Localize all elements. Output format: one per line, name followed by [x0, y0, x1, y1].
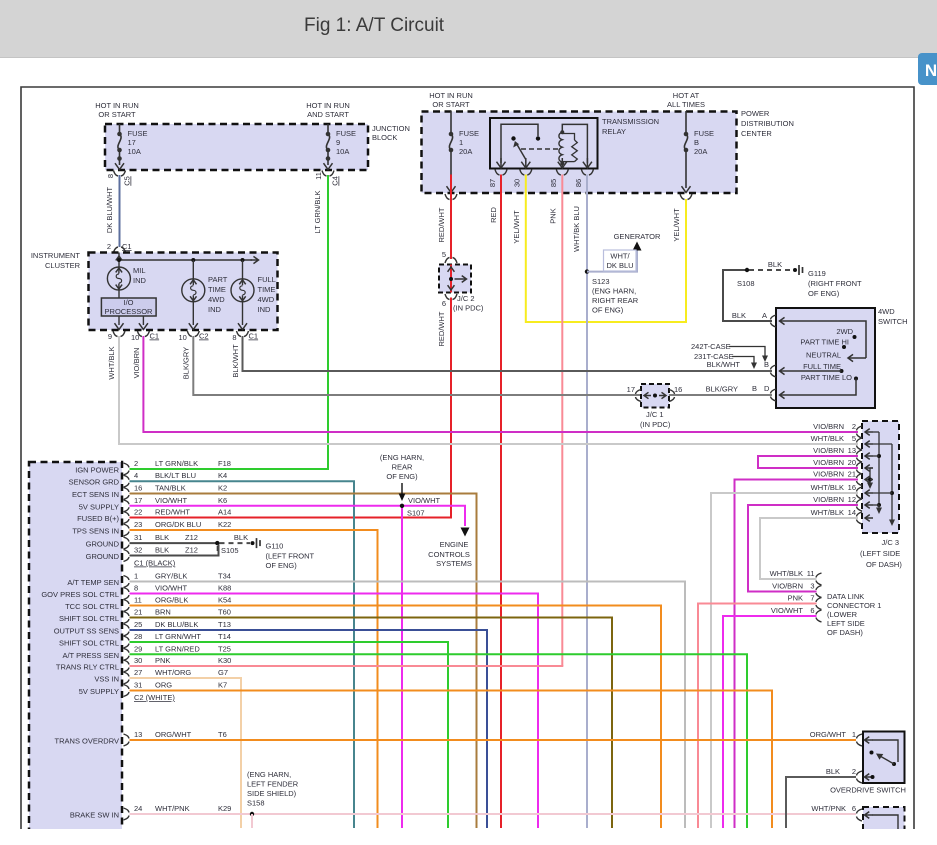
svg-text:FUSE: FUSE [128, 129, 148, 138]
svg-text:87: 87 [488, 179, 497, 187]
svg-text:BLK/LT BLU: BLK/LT BLU [155, 471, 196, 480]
wire ORG/WHT row13 to overdrive switch [130, 739, 857, 741]
svg-text:G119: G119 [808, 269, 826, 278]
svg-text:10A: 10A [128, 147, 141, 156]
svg-text:GOV PRES SOL CTRL: GOV PRES SOL CTRL [41, 590, 119, 599]
junction connector J/C3 box [862, 421, 899, 533]
wire BRN row21 down [130, 618, 613, 829]
svg-text:VIO/BRN: VIO/BRN [772, 582, 803, 591]
relay armature dashed link [521, 148, 561, 150]
PCM connector box [29, 462, 122, 837]
4WD switch box [776, 308, 875, 408]
svg-text:27: 27 [134, 668, 142, 677]
relay pin 85 stub [561, 162, 563, 164]
svg-text:K4: K4 [218, 471, 227, 480]
svg-text:5: 5 [442, 250, 446, 259]
svg-text:PNK: PNK [155, 656, 170, 665]
svg-text:TIME: TIME [208, 285, 226, 294]
svg-text:31: 31 [134, 533, 142, 542]
svg-text:8: 8 [106, 174, 115, 178]
wire WHT/PNK row24 to brake switch box [130, 813, 857, 815]
svg-text:S158: S158 [247, 799, 265, 808]
J/C3 pin 20 bracket [857, 462, 863, 474]
svg-text:BLK/GRY: BLK/GRY [706, 385, 738, 394]
svg-text:PART: PART [208, 275, 228, 284]
svg-text:13: 13 [848, 446, 856, 455]
svg-text:(LEFT SIDE: (LEFT SIDE [860, 549, 900, 558]
svg-text:(IN PDC): (IN PDC) [453, 304, 484, 313]
svg-text:4: 4 [134, 471, 138, 480]
wire WHT/BLK cluster to J/C3 pin5 [119, 336, 858, 444]
svg-text:G110: G110 [266, 542, 284, 551]
relay coil supply 86 path [562, 124, 587, 163]
svg-text:PNK: PNK [788, 594, 803, 603]
splice S158 [250, 812, 254, 816]
svg-text:PART TIME LO: PART TIME LO [801, 373, 852, 382]
svg-text:WHT/ORG: WHT/ORG [155, 668, 191, 677]
svg-text:F18: F18 [218, 459, 231, 468]
svg-text:MIL: MIL [133, 266, 146, 275]
svg-text:S123: S123 [592, 277, 610, 286]
svg-text:G7: G7 [218, 668, 228, 677]
svg-text:TRANS OVERDRV: TRANS OVERDRV [55, 737, 119, 746]
fuse F17 feed wire [119, 124, 121, 134]
wire BLK/LT BLU row4 down [130, 481, 355, 828]
svg-text:ORG/BLK: ORG/BLK [155, 596, 188, 605]
svg-text:29: 29 [134, 644, 142, 653]
data link connector pins [816, 573, 822, 585]
J/C3 pin 16 bracket [857, 487, 863, 499]
svg-text:RIGHT REAR: RIGHT REAR [592, 296, 639, 305]
svg-text:9: 9 [108, 332, 112, 341]
power distribution center box [422, 112, 737, 194]
wire VIO/BRN J/C3 21 down [735, 480, 859, 829]
svg-text:AND START: AND START [307, 110, 349, 119]
svg-text:VIO/WHT: VIO/WHT [155, 496, 187, 505]
wire LT GRN/BLK fuse9 to PCM IGN POWER [130, 175, 329, 469]
fuse 1 20A [449, 134, 452, 150]
svg-text:17: 17 [627, 385, 635, 394]
svg-text:FUSE: FUSE [459, 129, 479, 138]
svg-text:16: 16 [134, 484, 142, 493]
wire RED/WHT fuse1 down to J/C2 [450, 175, 452, 260]
svg-text:JUNCTION: JUNCTION [372, 124, 410, 133]
svg-text:HOT IN RUN: HOT IN RUN [95, 101, 139, 110]
svg-text:K6: K6 [218, 496, 227, 505]
wire YEL/WHT relay30 loop to fuseB [526, 175, 686, 323]
relay coil [559, 132, 562, 162]
svg-text:FULL TIME: FULL TIME [803, 362, 841, 371]
svg-text:21: 21 [134, 608, 142, 617]
svg-text:20A: 20A [459, 147, 472, 156]
svg-text:20: 20 [848, 458, 856, 467]
svg-text:J/C 3: J/C 3 [881, 538, 899, 547]
svg-text:242T-CASE: 242T-CASE [691, 342, 731, 351]
svg-text:ORG/DK BLU: ORG/DK BLU [155, 520, 201, 529]
fuse 17 10A [118, 134, 121, 150]
wire VIO/BRN J/C3 12 to DLC 3 [748, 505, 858, 592]
svg-text:DATA LINK: DATA LINK [827, 592, 864, 601]
junction connector J/C1 box [641, 384, 669, 408]
J/C3 pin 21 bracket [857, 474, 863, 486]
svg-text:11: 11 [314, 172, 323, 180]
svg-text:31: 31 [134, 681, 142, 690]
cluster exit stubs [118, 316, 120, 325]
svg-text:C1: C1 [122, 242, 132, 251]
svg-text:3: 3 [810, 582, 814, 591]
svg-text:6: 6 [810, 606, 814, 615]
svg-text:8: 8 [134, 584, 138, 593]
svg-text:SIDE SHIELD): SIDE SHIELD) [247, 789, 297, 798]
svg-text:5V SUPPLY: 5V SUPPLY [79, 687, 119, 696]
svg-text:IGN POWER: IGN POWER [75, 466, 119, 475]
wire ORG/BLK row11 down [130, 606, 662, 829]
svg-text:DISTRIBUTION: DISTRIBUTION [741, 119, 794, 128]
lamp PART TIME 4WD IND [192, 260, 194, 279]
svg-text:LT GRN/RED: LT GRN/RED [155, 644, 200, 653]
svg-text:CONTROLS: CONTROLS [428, 550, 470, 559]
cluster feed bus [118, 253, 120, 268]
splice S105 [215, 541, 219, 545]
svg-text:Z12: Z12 [185, 546, 198, 555]
svg-text:VIO/BRN: VIO/BRN [813, 458, 844, 467]
svg-text:RED/WHT: RED/WHT [437, 311, 446, 346]
svg-text:BLK: BLK [155, 546, 169, 555]
svg-text:ALL TIMES: ALL TIMES [667, 100, 705, 109]
wire ORG row31 down [130, 691, 773, 829]
ground G119 [749, 269, 793, 271]
svg-text:CONNECTOR 1: CONNECTOR 1 [827, 601, 881, 610]
wire VIO/BRN cluster to J/C3 pin2 [143, 336, 858, 432]
svg-text:BLOCK: BLOCK [372, 133, 397, 142]
svg-text:30: 30 [513, 179, 522, 187]
fuse F1 feed wire [450, 111, 452, 134]
svg-text:11: 11 [807, 569, 815, 578]
svg-text:VIO/BRN: VIO/BRN [132, 348, 141, 379]
svg-text:BRN: BRN [155, 608, 171, 617]
svg-text:WHT/: WHT/ [610, 252, 630, 261]
svg-text:10: 10 [179, 333, 187, 342]
svg-text:T60: T60 [218, 608, 231, 617]
svg-text:TAN/BLK: TAN/BLK [155, 484, 186, 493]
svg-text:FUSE: FUSE [694, 129, 714, 138]
svg-text:S107: S107 [407, 509, 425, 518]
svg-text:POWER: POWER [741, 109, 770, 118]
svg-text:ORG: ORG [155, 681, 172, 690]
svg-text:OF DASH): OF DASH) [866, 560, 902, 569]
svg-text:DK BLU/WHT: DK BLU/WHT [105, 186, 114, 233]
svg-text:C2: C2 [199, 332, 209, 341]
svg-text:6: 6 [852, 804, 856, 813]
svg-text:J/C 2: J/C 2 [457, 294, 475, 303]
svg-text:GROUND: GROUND [86, 540, 120, 549]
overdrive blade [880, 756, 894, 764]
svg-text:BLK/WHT: BLK/WHT [707, 360, 741, 369]
svg-text:HOT IN RUN: HOT IN RUN [306, 101, 350, 110]
junction block box [105, 124, 368, 170]
svg-text:ENGINE: ENGINE [440, 540, 469, 549]
4WD common path to NEUTRAL [788, 321, 867, 358]
svg-text:4WD: 4WD [258, 295, 275, 304]
wire DK BLU/WHT fuse17 to cluster [119, 175, 121, 247]
4WD pin D path [771, 389, 777, 401]
svg-text:5V SUPPLY: 5V SUPPLY [79, 502, 119, 511]
svg-text:T34: T34 [218, 572, 231, 581]
svg-text:OF DASH): OF DASH) [827, 628, 863, 637]
svg-text:SYSTEMS: SYSTEMS [436, 559, 472, 568]
svg-text:K30: K30 [218, 656, 231, 665]
svg-text:D: D [764, 384, 770, 393]
svg-text:OF ENG): OF ENG) [592, 306, 624, 315]
svg-text:14: 14 [848, 508, 856, 517]
fuse 9 10A [326, 134, 329, 150]
svg-text:RED/WHT: RED/WHT [437, 207, 446, 242]
svg-text:INSTRUMENT: INSTRUMENT [31, 251, 81, 260]
svg-text:13: 13 [134, 730, 142, 739]
generator arrow [633, 242, 642, 251]
J/C3 internal bus 5-16 [873, 443, 892, 445]
svg-text:16: 16 [848, 483, 856, 492]
svg-text:12: 12 [848, 495, 856, 504]
wire BLK/WHT cluster to 4WD switch B [243, 336, 773, 371]
svg-text:TCC SOL CTRL: TCC SOL CTRL [65, 602, 119, 611]
J/C3 pin 14 bracket [857, 512, 863, 524]
svg-text:OF ENG): OF ENG) [808, 289, 840, 298]
svg-text:4WD: 4WD [878, 307, 895, 316]
J/C3 pin 5 bracket [857, 438, 863, 450]
wire LT GRN/WHT row28 down [130, 642, 449, 828]
svg-text:30: 30 [134, 656, 142, 665]
J/C3 internal bus 20-21-16 [870, 467, 873, 469]
svg-text:LEFT SIDE: LEFT SIDE [827, 619, 865, 628]
svg-text:ORG/WHT: ORG/WHT [155, 730, 192, 739]
svg-text:K7: K7 [218, 681, 227, 690]
lamp MIL IND [107, 267, 130, 290]
svg-text:NEUTRAL: NEUTRAL [806, 351, 841, 360]
svg-text:WHT/PNK: WHT/PNK [811, 804, 846, 813]
svg-text:RED: RED [489, 207, 498, 223]
svg-text:I/O: I/O [123, 298, 133, 307]
wire WHT/ORG row27 down [130, 678, 242, 828]
svg-text:8: 8 [232, 333, 236, 342]
svg-text:RED/WHT: RED/WHT [155, 508, 190, 517]
svg-text:T6: T6 [218, 730, 227, 739]
svg-text:17: 17 [128, 138, 136, 147]
svg-text:BLK: BLK [155, 533, 169, 542]
overdrive pin 1 [857, 734, 863, 746]
wire WHT/BLK J/C3 14 to DLC 11 [760, 518, 858, 579]
svg-text:A/T TEMP SEN: A/T TEMP SEN [67, 578, 119, 587]
svg-text:T25: T25 [218, 644, 231, 653]
svg-text:TPS SENS IN: TPS SENS IN [72, 527, 119, 536]
svg-text:VIO/BRN: VIO/BRN [813, 422, 844, 431]
svg-text:2: 2 [852, 422, 856, 431]
svg-text:(ENG HARN,: (ENG HARN, [592, 287, 636, 296]
fuse F9 feed wire [327, 124, 329, 134]
svg-text:C5: C5 [123, 176, 132, 186]
relay coil resistor zigzag [572, 140, 578, 162]
svg-text:BLK: BLK [234, 533, 248, 542]
svg-text:10: 10 [131, 333, 139, 342]
svg-text:T13: T13 [218, 620, 231, 629]
wire DK BLU/BLK row25 down [130, 630, 488, 828]
overdrive internal path [872, 740, 898, 762]
svg-text:GRY/BLK: GRY/BLK [155, 572, 187, 581]
svg-text:Fig 1: A/T Circuit: Fig 1: A/T Circuit [304, 15, 445, 36]
svg-text:C1: C1 [249, 332, 259, 341]
svg-text:K29: K29 [218, 804, 231, 813]
J/C3 pin 2 bracket [857, 426, 863, 438]
svg-text:10A: 10A [336, 147, 349, 156]
svg-text:OR START: OR START [432, 100, 470, 109]
wire BLK/GRY cluster to 4WD switch D via J/C1 [193, 336, 772, 395]
svg-text:LT GRN/WHT: LT GRN/WHT [155, 632, 201, 641]
svg-text:LEFT FENDER: LEFT FENDER [247, 780, 299, 789]
svg-text:WHT/BK BLU: WHT/BK BLU [572, 206, 581, 252]
svg-text:FUSE: FUSE [336, 129, 356, 138]
svg-text:17: 17 [134, 496, 142, 505]
svg-text:SWITCH: SWITCH [878, 317, 908, 326]
fuse B 20A [684, 134, 687, 150]
svg-text:20A: 20A [694, 147, 707, 156]
svg-text:C1: C1 [150, 332, 160, 341]
engine controls systems arrow [461, 528, 470, 537]
svg-text:2WD: 2WD [836, 327, 853, 336]
svg-text:25: 25 [134, 620, 142, 629]
svg-text:22: 22 [134, 508, 142, 517]
svg-text:C1 (BLACK): C1 (BLACK) [134, 559, 176, 568]
svg-text:S105: S105 [221, 546, 239, 555]
svg-text:BLK: BLK [826, 767, 840, 776]
I/O processor box [118, 290, 120, 298]
svg-text:C4: C4 [331, 176, 340, 186]
wire VIO/BRN jumper J/C3 13-20 [758, 456, 858, 468]
svg-text:PART TIME HI: PART TIME HI [800, 338, 849, 347]
wire BLK 4WD switch A to S108 [723, 270, 772, 321]
svg-text:16: 16 [674, 385, 682, 394]
svg-text:OF ENG): OF ENG) [266, 561, 298, 570]
junction connector J/C2 box [445, 258, 457, 264]
svg-text:A: A [762, 311, 767, 320]
wire PNK row30 to relay85 [130, 665, 564, 667]
wire VIO/WHT DLC 6 down [723, 616, 817, 828]
svg-text:1: 1 [459, 138, 463, 147]
wire PNK DLC 7 down [698, 604, 817, 829]
J/C2 internal arrows [450, 265, 452, 293]
svg-text:VIO/WHT: VIO/WHT [408, 496, 440, 505]
svg-text:ORG/WHT: ORG/WHT [810, 730, 847, 739]
svg-text:1: 1 [852, 730, 856, 739]
wire VIO/WHT row8 down [130, 594, 539, 829]
svg-text:2: 2 [134, 459, 138, 468]
svg-text:BLK/GRY: BLK/GRY [182, 347, 191, 379]
overdrive switch box [863, 732, 905, 784]
svg-text:K2: K2 [218, 484, 227, 493]
svg-text:VSS IN: VSS IN [94, 675, 119, 684]
svg-text:7: 7 [810, 594, 814, 603]
svg-text:K22: K22 [218, 520, 231, 529]
svg-text:ECT SENS IN: ECT SENS IN [72, 490, 119, 499]
svg-text:Z12: Z12 [185, 533, 198, 542]
svg-text:T14: T14 [218, 632, 231, 641]
page header bar [0, 0, 937, 58]
fuse B feed wire [685, 111, 687, 134]
svg-text:WHT/BLK: WHT/BLK [811, 483, 844, 492]
svg-text:A/T PRESS SEN: A/T PRESS SEN [62, 651, 119, 660]
brake switch box (dashed, cut off) [863, 807, 905, 837]
svg-text:TRANS RLY CTRL: TRANS RLY CTRL [56, 663, 119, 672]
svg-text:9: 9 [336, 138, 340, 147]
svg-text:N: N [925, 61, 937, 80]
svg-text:YEL/WHT: YEL/WHT [512, 210, 521, 244]
svg-text:PROCESSOR: PROCESSOR [105, 307, 154, 316]
wire ORG/DK BLU row23 down [130, 530, 378, 828]
svg-text:SHIFT SOL CTRL: SHIFT SOL CTRL [59, 614, 119, 623]
svg-text:LT GRN/BLK: LT GRN/BLK [313, 190, 322, 233]
svg-text:GENERATOR: GENERATOR [614, 232, 661, 241]
svg-text:23: 23 [134, 520, 142, 529]
splice S123 [585, 269, 589, 273]
svg-text:DK BLU/BLK: DK BLU/BLK [155, 620, 198, 629]
svg-text:VIO/WHT: VIO/WHT [155, 584, 187, 593]
svg-text:K54: K54 [218, 596, 231, 605]
svg-text:TIME: TIME [258, 285, 276, 294]
svg-text:IND: IND [133, 276, 147, 285]
svg-text:K88: K88 [218, 584, 231, 593]
wire WHT/BLK J/C3 16 down [711, 493, 858, 828]
svg-text:LT GRN/BLK: LT GRN/BLK [155, 459, 198, 468]
svg-text:WHT/BLK: WHT/BLK [107, 346, 116, 379]
splice S108 [745, 268, 749, 272]
relay contact 87 path [501, 124, 538, 163]
blue N tab top-right [918, 53, 937, 85]
svg-text:OF ENG): OF ENG) [386, 472, 418, 481]
svg-text:VIO/BRN: VIO/BRN [813, 470, 844, 479]
svg-text:BLK/WHT: BLK/WHT [231, 344, 240, 378]
4WD pin B [771, 365, 777, 377]
svg-text:BLK: BLK [768, 260, 782, 269]
svg-text:(ENG HARN,: (ENG HARN, [380, 453, 424, 462]
overdrive pin 2 [857, 771, 863, 783]
svg-text:(LOWER: (LOWER [827, 610, 858, 619]
svg-text:(RIGHT FRONT: (RIGHT FRONT [808, 279, 862, 288]
wire TAN/BLK row16 down [130, 494, 477, 829]
svg-text:WHT/BLK: WHT/BLK [770, 569, 803, 578]
svg-text:SHIFT SOL CTRL: SHIFT SOL CTRL [59, 639, 119, 648]
svg-text:(IN PDC): (IN PDC) [640, 420, 671, 429]
svg-text:OUTPUT SS SENS: OUTPUT SS SENS [54, 627, 119, 636]
svg-text:B: B [752, 384, 757, 393]
wire PNK relay85 down [561, 175, 563, 667]
J/C3 internal bus 2-13-12-14 [873, 431, 879, 433]
label box WHT/DK BLU [604, 250, 637, 271]
svg-text:2: 2 [107, 242, 111, 251]
svg-text:YEL/WHT: YEL/WHT [672, 208, 681, 242]
svg-text:4WD: 4WD [208, 295, 225, 304]
lamp FULL TIME 4WD IND [242, 260, 244, 279]
svg-text:21: 21 [848, 470, 856, 479]
svg-text:WHT/BLK: WHT/BLK [811, 434, 844, 443]
svg-text:5: 5 [852, 434, 856, 443]
ground G110 dashed BLK [220, 542, 251, 544]
svg-text:6: 6 [442, 299, 446, 308]
svg-text:VIO/BRN: VIO/BRN [813, 446, 844, 455]
svg-text:IND: IND [258, 305, 272, 314]
svg-text:IND: IND [208, 305, 222, 314]
svg-text:A14: A14 [218, 508, 231, 517]
svg-text:11: 11 [134, 596, 142, 605]
svg-text:32: 32 [134, 546, 142, 555]
